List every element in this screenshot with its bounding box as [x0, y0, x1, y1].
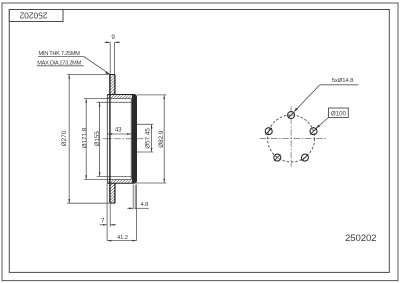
plate top edge — [110, 74, 115, 76]
plate bottom edge — [110, 202, 115, 204]
centerline (horizontal axis) — [103, 138, 144, 140]
dim 41.2 right ext line — [136, 185, 138, 241]
svg-text:43: 43 — [115, 128, 122, 134]
hat outer boundary top — [107, 95, 136, 184]
vertical centerline — [290, 107, 292, 168]
dim line dia82.9 — [163, 95, 165, 183]
max-dia note underline 2 — [37, 65, 84, 67]
dim 9 ext lines — [109, 42, 111, 74]
svg-text:Ø100: Ø100 — [331, 110, 347, 117]
svg-text:250202: 250202 — [345, 233, 376, 244]
svg-text:7: 7 — [101, 218, 105, 225]
horizontal centerline — [260, 138, 328, 140]
extension line A (hat inner top, also dia171.8 ext) — [84, 98, 132, 100]
extension line dia270 bottom — [67, 202, 109, 204]
plate bottom hatched segment — [107, 179, 136, 203]
svg-text:MAX DIA 173.2MM: MAX DIA 173.2MM — [37, 60, 81, 66]
title box top-left — [9, 10, 63, 22]
svg-text:Ø155: Ø155 — [94, 131, 101, 147]
dim line dia57.45 — [151, 124, 153, 152]
plate left edge — [109, 75, 111, 204]
svg-text:250202: 250202 — [19, 10, 47, 20]
bolt hole top — [288, 112, 295, 119]
dim 4.8 ext lines — [132, 185, 134, 210]
hat lip left face — [106, 95, 108, 184]
svg-text:MIN THK 7.25MM: MIN THK 7.25MM — [39, 51, 81, 57]
bolt circle dia100 (dashed) — [268, 115, 315, 162]
leader to friction surface — [84, 57, 110, 75]
dim 7 line — [100, 224, 108, 226]
plate right edge bottom — [114, 183, 116, 203]
svg-text:5xØ14.8: 5xØ14.8 — [332, 78, 354, 84]
extension line B (step, also dia155 ext) — [97, 101, 132, 103]
extension line A' bottom — [84, 178, 132, 180]
svg-text:4.8: 4.8 — [141, 202, 150, 208]
dia100 label box — [329, 108, 349, 118]
hat mounting wall (dark) — [132, 95, 136, 183]
svg-text:Ø57.45: Ø57.45 — [144, 128, 151, 149]
svg-text:41.2: 41.2 — [117, 235, 128, 241]
bolt hole upper-right — [310, 128, 317, 135]
min-thk note underline 1 — [38, 56, 84, 58]
dim 4.8 line — [127, 207, 133, 209]
plate top hatched segment — [107, 75, 136, 99]
dim 9 line + arrows — [104, 41, 110, 43]
svg-text:Ø270: Ø270 — [61, 130, 68, 146]
extension line dia270 top — [67, 73, 110, 75]
dim line dia155 — [99, 102, 101, 176]
bolt hole lower-left — [274, 154, 281, 161]
dim 7 ext lines — [106, 184, 108, 241]
dim 41.2 line + arrows — [107, 240, 136, 242]
wall inner-left edge — [130, 99, 132, 180]
dim 43 line + arrows — [108, 133, 131, 135]
leader 5xdia14.8 — [320, 84, 358, 86]
plate right edge top — [114, 75, 116, 95]
bolt hole upper-left — [265, 128, 272, 135]
bolt hole lower-right — [301, 154, 308, 161]
svg-text:Ø82.9: Ø82.9 — [158, 130, 165, 148]
dim line dia171.8 — [85, 99, 87, 180]
leader dia100 — [316, 118, 328, 129]
svg-text:9: 9 — [111, 34, 115, 41]
extension line B' bottom — [97, 175, 132, 177]
svg-text:Ø171.8: Ø171.8 — [82, 127, 89, 148]
dia82.9 ext lines — [137, 94, 166, 96]
dia57.45 ext lines — [137, 123, 153, 125]
dim line dia270 — [68, 74, 70, 203]
